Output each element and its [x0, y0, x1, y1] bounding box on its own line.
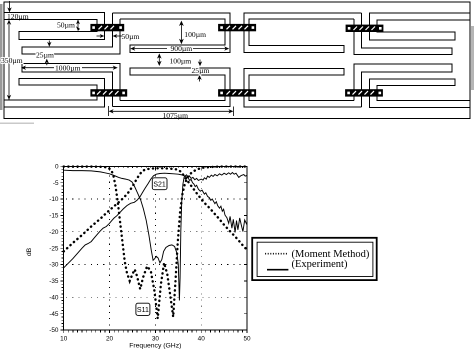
svg-text:120µm: 120µm — [7, 12, 29, 21]
scan artifact: gray right edge strip — [471, 26, 474, 90]
svg-text:100µm: 100µm — [184, 30, 206, 39]
chart frame — [64, 166, 247, 330]
scan artifact: gray bottom-left smudge — [0, 123, 34, 125]
svg-text:-45: -45 — [49, 311, 59, 318]
svg-text:dB: dB — [26, 247, 33, 256]
dimension 350um arrow — [7, 20, 11, 100]
svg-text:-40: -40 — [49, 295, 59, 302]
dotted horizontal gridlines — [66, 199, 247, 297]
top input feed line (left port) — [4, 13, 105, 40]
svg-text:1075µm: 1075µm — [163, 111, 189, 120]
svg-text:-5: -5 — [53, 180, 59, 187]
svg-text:20: 20 — [106, 335, 114, 342]
legend solid sample — [267, 269, 288, 271]
svg-text:-35: -35 — [49, 278, 59, 285]
dimension 1075um arrow with end ticks — [109, 106, 234, 116]
svg-text:(Experiment): (Experiment) — [292, 259, 348, 270]
svg-text:30: 30 — [152, 335, 160, 342]
overlay coupler bar B5 (bottom center) — [219, 90, 256, 97]
dimension 25um arrows (loop arm width) — [197, 60, 202, 82]
S11 curve label box — [136, 303, 150, 315]
S11 moment-method curve (dotted) — [64, 167, 247, 319]
loop resonator 2' (right bottom) — [244, 68, 362, 107]
svg-text:25µm: 25µm — [192, 66, 210, 75]
svg-text:S11: S11 — [137, 307, 149, 314]
dimension 100um arrow (center gap) — [157, 53, 162, 66]
bottom feed line (right port) — [370, 79, 471, 107]
dimension 50um gap arrows (left coupler gap) — [97, 34, 123, 38]
svg-text:50: 50 — [243, 335, 251, 342]
legend dotted sample — [265, 253, 288, 255]
loop resonator 2 (right, open rectangular loop) — [244, 13, 362, 52]
svg-text:S21: S21 — [153, 182, 166, 189]
overlay coupler bar B2 (top center) — [219, 24, 256, 31]
svg-text:-25: -25 — [49, 245, 59, 252]
svg-text:900µm: 900µm — [171, 44, 193, 53]
substrate outer boundary — [4, 2, 470, 119]
overlay coupler bar B4 (bottom left) — [91, 90, 127, 97]
svg-text:40: 40 — [198, 335, 206, 342]
legend box — [252, 238, 377, 280]
svg-text:350µm: 350µm — [1, 56, 23, 65]
dimension 1000um arrow — [21, 66, 118, 70]
S21 moment-method curve (dotted) — [64, 168, 247, 251]
svg-text:50µm: 50µm — [122, 32, 140, 41]
dotted vertical gridlines — [110, 169, 202, 325]
dimension 120um arrow — [7, 1, 11, 12]
loop resonator 1' (left bottom) — [112, 68, 230, 107]
resonator strip R2 (right) — [354, 13, 452, 54]
resonator strip S2' (left bottom) — [22, 64, 120, 107]
svg-text:-20: -20 — [49, 229, 59, 236]
dimension 100um arrow (inside loop 1) — [179, 21, 184, 45]
top feed line (right port) — [370, 13, 471, 40]
svg-text:-50: -50 — [49, 327, 59, 334]
overlay coupler bar B3 (top right) — [346, 25, 383, 32]
S21 experiment curve (solid) — [64, 173, 247, 268]
dimension 900um arrow — [130, 46, 229, 50]
svg-text:25µm: 25µm — [36, 51, 54, 60]
scan artifact: gray left edge strip — [0, 4, 2, 110]
resonator strip S2 (left) — [22, 13, 120, 54]
svg-text:100µm: 100µm — [170, 56, 192, 65]
overlay coupler bar B1 (top left) — [91, 24, 124, 31]
loop resonator 1 (left, open rectangular loop) — [112, 13, 230, 53]
svg-text:-15: -15 — [49, 213, 59, 220]
svg-text:10: 10 — [60, 335, 68, 342]
resonator strip R2' (right bottom) — [354, 64, 452, 107]
svg-text:0: 0 — [55, 164, 59, 171]
dimension 25um arrows (left strip width) — [45, 41, 52, 66]
chart axis ticks — [60, 166, 247, 333]
bottom feed line (left port) — [4, 79, 105, 108]
svg-text:1000µm: 1000µm — [55, 64, 81, 73]
svg-text:-30: -30 — [49, 262, 59, 269]
dimension 50um vertical arrow (upper left) — [76, 20, 80, 31]
svg-text:Frequency (GHz): Frequency (GHz) — [129, 342, 181, 349]
overlay coupler bar B6 (bottom right) — [346, 90, 383, 97]
S11 experiment curve (solid) — [64, 170, 247, 300]
svg-text:-10: -10 — [49, 196, 59, 203]
S21 curve label box — [152, 178, 167, 190]
svg-text:50µm: 50µm — [57, 21, 75, 30]
